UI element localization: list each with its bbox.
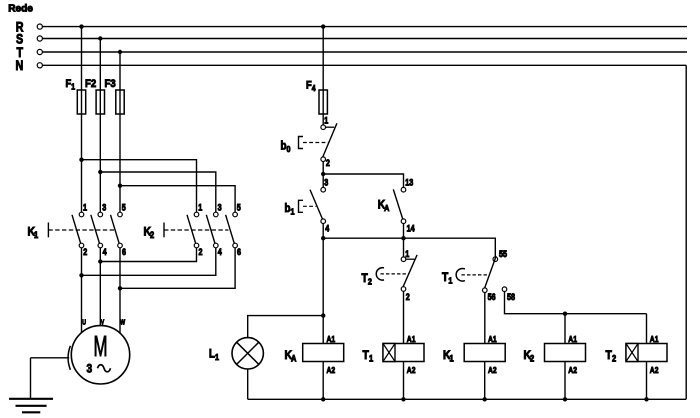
svg-text:A2: A2 [407, 365, 416, 375]
svg-text:A2: A2 [650, 365, 659, 375]
svg-text:3: 3 [324, 178, 328, 188]
svg-text:4: 4 [312, 83, 317, 93]
svg-text:1: 1 [448, 276, 453, 286]
svg-text:1: 1 [291, 207, 296, 217]
svg-text:A1: A1 [568, 334, 577, 344]
svg-text:6: 6 [122, 247, 126, 257]
svg-text:1: 1 [405, 249, 409, 259]
svg-text:1: 1 [449, 354, 454, 364]
svg-text:3: 3 [218, 203, 222, 213]
svg-text:T: T [606, 349, 612, 362]
svg-text:6: 6 [237, 247, 241, 257]
svg-text:N: N [16, 58, 24, 74]
svg-text:A2: A2 [327, 365, 336, 375]
svg-text:A1: A1 [327, 334, 336, 344]
svg-text:F3: F3 [105, 78, 116, 90]
svg-text:T: T [363, 349, 369, 362]
svg-text:1: 1 [83, 203, 87, 213]
svg-text:5: 5 [237, 203, 241, 213]
svg-text:U: U [82, 319, 86, 327]
svg-text:56: 56 [488, 292, 496, 302]
svg-text:1: 1 [198, 203, 202, 213]
svg-text:2: 2 [406, 292, 410, 302]
svg-text:2: 2 [150, 231, 155, 241]
svg-text:1: 1 [324, 116, 328, 126]
svg-text:2: 2 [83, 247, 87, 257]
svg-text:A1: A1 [488, 334, 497, 344]
svg-text:A: A [384, 203, 389, 213]
svg-text:55: 55 [499, 249, 507, 259]
svg-text:T: T [362, 272, 368, 285]
svg-text:A: A [291, 354, 296, 364]
svg-text:F: F [306, 80, 312, 92]
svg-text:4: 4 [218, 247, 222, 257]
svg-text:Rede: Rede [8, 3, 33, 14]
svg-text:W: W [120, 319, 126, 327]
svg-text:F2: F2 [85, 78, 96, 90]
svg-text:4: 4 [325, 224, 329, 234]
svg-text:A1: A1 [407, 334, 416, 344]
svg-text:A2: A2 [488, 365, 497, 375]
svg-text:3: 3 [102, 203, 106, 213]
svg-text:0: 0 [287, 145, 292, 155]
svg-text:F: F [66, 78, 72, 90]
svg-text:5: 5 [122, 203, 126, 213]
svg-text:1: 1 [71, 82, 75, 92]
svg-text:2: 2 [326, 158, 330, 168]
svg-text:1: 1 [369, 354, 374, 364]
svg-text:M: M [93, 332, 107, 364]
svg-text:58: 58 [507, 292, 515, 302]
svg-text:14: 14 [407, 224, 415, 234]
svg-text:3: 3 [86, 362, 92, 375]
svg-text:2: 2 [612, 354, 617, 364]
svg-text:2: 2 [368, 277, 373, 287]
svg-text:4: 4 [103, 247, 107, 257]
svg-text:2: 2 [530, 354, 535, 364]
svg-text:A1: A1 [650, 334, 659, 344]
svg-text:T: T [442, 271, 448, 284]
svg-text:13: 13 [405, 178, 413, 188]
svg-text:1: 1 [34, 231, 39, 241]
svg-text:1: 1 [215, 353, 220, 363]
svg-text:2: 2 [199, 247, 203, 257]
svg-text:A2: A2 [568, 365, 577, 375]
